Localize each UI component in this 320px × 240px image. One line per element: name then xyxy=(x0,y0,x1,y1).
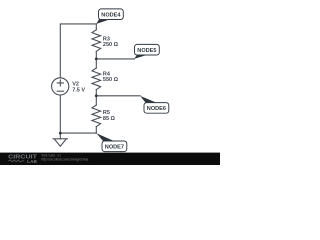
node NODE7 callout xyxy=(96,133,126,151)
wire source bottom xyxy=(59,95,61,133)
voltage source V2 circle xyxy=(52,78,69,95)
wire junction to R5 xyxy=(95,96,97,105)
resistor R3 xyxy=(92,30,101,52)
wire node5 branch xyxy=(96,58,134,60)
junction ground dot xyxy=(59,132,62,135)
ground triangle xyxy=(55,139,66,146)
wire R4 to node6 junction xyxy=(95,90,97,96)
junction node6 dot xyxy=(95,94,98,97)
wire junction to R4 xyxy=(95,59,97,68)
svg-text:LAB: LAB xyxy=(27,159,37,164)
node NODE6 callout xyxy=(140,96,169,113)
svg-text:NODE6: NODE6 xyxy=(147,106,166,112)
node NODE5 callout xyxy=(134,44,159,58)
footer logo zigzag xyxy=(8,160,24,162)
wire R3 to node5 junction xyxy=(95,51,97,59)
wire R5 to bottom xyxy=(95,127,97,134)
svg-text:85 Ω: 85 Ω xyxy=(103,116,116,122)
svg-text:NODE4: NODE4 xyxy=(101,12,120,18)
V2 minus sign xyxy=(57,90,63,92)
svg-text:7.5 V: 7.5 V xyxy=(72,87,85,93)
wire chain segment top xyxy=(95,24,97,30)
svg-text:550 Ω: 550 Ω xyxy=(103,77,119,83)
node NODE4 callout xyxy=(96,9,123,24)
svg-text:NODE7: NODE7 xyxy=(105,144,124,150)
svg-text:http://circuitlab.com/c/nkngn/: http://circuitlab.com/c/nkngn/Owla xyxy=(41,158,88,162)
ground stem xyxy=(59,133,61,139)
footer bar xyxy=(0,153,220,165)
wire top-left run xyxy=(60,24,96,78)
wire bottom run xyxy=(60,132,96,134)
svg-text:250 Ω: 250 Ω xyxy=(103,42,119,48)
resistor R4 xyxy=(92,68,101,90)
wire node6 branch xyxy=(96,95,140,97)
ground bar xyxy=(53,138,67,140)
resistor R5 xyxy=(92,105,101,127)
V2 plus sign xyxy=(57,80,63,86)
svg-text:NODE5: NODE5 xyxy=(137,48,156,54)
junction node5 dot xyxy=(95,58,98,61)
